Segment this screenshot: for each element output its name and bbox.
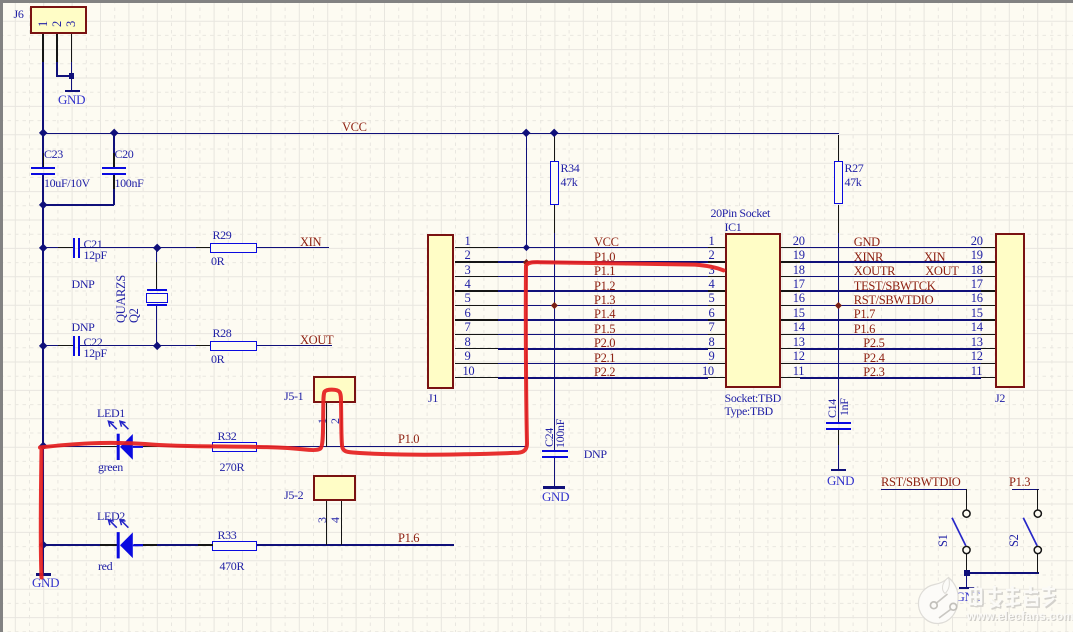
net label P1.1 (594, 265, 615, 278)
IC1 left pin number 5 (709, 292, 715, 305)
resistor R34 (554, 135, 555, 161)
J2 pin number 11 (971, 365, 982, 378)
wire XOUT row left (42, 345, 73, 347)
wire C14 to gnd (838, 430, 839, 446)
wire C24 to gnd (554, 458, 556, 487)
watermark url text (967, 609, 1073, 623)
J5-2 pin 3 (316, 517, 329, 523)
IC1 right pin number 19 (793, 249, 805, 262)
net label P1.2 (594, 280, 615, 293)
node row5 P1.3 pullup (551, 302, 558, 309)
ground symbol C24 (543, 486, 565, 488)
switch S2 (1023, 510, 1041, 554)
IC1 left pin number 8 (709, 336, 715, 349)
watermark chinese text (969, 585, 1056, 608)
wire XIN row right (257, 247, 329, 249)
wire J1 pin10 to IC1 pin10 (455, 377, 498, 378)
node row1 VCC (523, 244, 530, 251)
wire junction to S2 (966, 572, 1039, 574)
crystal Q2 (147, 289, 167, 291)
wire quartz bottom (156, 306, 158, 347)
wire LED1 to R32 (134, 446, 213, 448)
net label XINR (854, 251, 883, 264)
IC1 left pin number 3 (709, 264, 715, 277)
wire IC1 pin14 to J2 pin14 (781, 334, 800, 335)
IC1 right pin number 20 (793, 235, 805, 248)
wire J1 pin2 to IC1 pin2 (455, 261, 498, 262)
resistor R27 (838, 135, 839, 161)
net label P1.3 (594, 294, 615, 307)
net label P2.5 (863, 337, 884, 350)
J1 pin number 8 (465, 336, 471, 349)
J1 pin number 6 (465, 307, 471, 320)
wire R34 bottom down to C24 (554, 205, 555, 233)
wire red highlight trace (40, 262, 724, 577)
wire LED2 to R33 (134, 544, 213, 546)
J5-2 pin 4 (329, 517, 342, 523)
wire quartz top (156, 248, 158, 290)
wire IC1 pin12 to J2 pin12 (781, 363, 800, 364)
IC1 left pin number 10 (702, 365, 714, 378)
J2 pin number 18 (971, 264, 983, 277)
J2 pin number 20 (971, 235, 983, 248)
wire S1 bottom to junction (966, 553, 967, 572)
wire J1 pin6 to IC1 pin6 (455, 319, 498, 320)
wire R27 bottom down to C14 (838, 205, 839, 233)
net label P1.5 (594, 323, 615, 336)
wire XOUT row right (257, 345, 332, 347)
wire R32 to P1.0 elbow (257, 446, 527, 448)
LED LED1 labels (97, 407, 125, 420)
LED LED1 (green) (108, 421, 143, 460)
ground symbol bottom-left (36, 573, 52, 575)
net label P2.1 (594, 352, 615, 365)
J2 pin number 13 (971, 336, 983, 349)
J2 pin number 17 (971, 278, 983, 291)
wire VCC rail (42, 133, 839, 135)
net label P2.3 (863, 366, 884, 379)
wire IC1 pin20 to J2 pin20 (781, 247, 800, 248)
J2 pin number 12 (971, 350, 983, 363)
wire P1.3 to S2 (1012, 489, 1039, 491)
IC1 left pin number 6 (709, 307, 715, 320)
text DNP upper (72, 278, 95, 291)
jumper J5-2 (313, 475, 356, 501)
wire C20 bottom to rail (42, 204, 114, 206)
ground symbol J6 (65, 90, 81, 92)
J1 pin number 2 (465, 249, 471, 262)
net label P1.4 (594, 308, 615, 321)
node rail LED2 row (38, 541, 47, 550)
wire IC1 pin15 to J2 pin15 (781, 319, 800, 320)
IC1 right pin number 16 (793, 292, 805, 305)
net label P1.0 (594, 251, 615, 264)
ground symbol C14 (831, 469, 847, 471)
capacitor C24 (542, 450, 568, 452)
net label P2.4 (863, 352, 884, 365)
wire R33 to P1.6 end (257, 544, 454, 546)
IC1 left pin number 7 (709, 321, 715, 334)
wire J1 pin1 to IC1 pin1 (455, 247, 498, 248)
capacitor C23 (31, 167, 55, 169)
IC1 left pin number 1 (709, 235, 715, 248)
node rail-XOUT (38, 341, 47, 350)
wire IC1 pin16 to J2 pin16 (781, 305, 800, 306)
J6 pin 3 (65, 21, 78, 27)
J1 pin number 5 (465, 292, 471, 305)
wire IC1 pin18 to J2 pin18 (781, 276, 800, 277)
wire XIN row mid (80, 247, 210, 249)
ground symbol switches (966, 576, 968, 587)
J1 pin number 9 (465, 350, 471, 363)
capacitor C21 (73, 238, 75, 259)
node VCC rail x526 (522, 129, 531, 138)
IC1 right pin number 11 (793, 365, 804, 378)
net label P1.6 (bottom) (398, 532, 419, 545)
node C23/C20 bottom (38, 201, 47, 210)
node row2 P1.0 (523, 259, 530, 266)
watermark logo (918, 578, 958, 624)
wire pin3 down to gnd (71, 62, 73, 90)
J6 pin 1 (37, 21, 50, 27)
node junction J6 gnd (69, 73, 75, 79)
wire IC1 pin17 to J2 pin17 (781, 290, 800, 291)
wire XIN row left (42, 247, 73, 249)
IC1 right pin number 12 (793, 350, 805, 363)
wire left rail upper (J6 pin1 down to C23) (42, 62, 44, 168)
LED LED2 (red) (108, 520, 143, 559)
node row16 RST pullup (835, 302, 842, 309)
wire IC1 pin19 to J2 pin19 (781, 261, 800, 262)
wire pin2 down (56, 62, 58, 77)
node rail-XIN (38, 243, 47, 252)
resistor R28 (210, 341, 256, 351)
J1 pin number 1 (465, 235, 471, 248)
net label P1.6 (854, 323, 875, 336)
wire IC1 pin11 to J2 pin11 (781, 377, 800, 378)
resistor R33 (212, 541, 257, 551)
J1 pin number 3 (465, 264, 471, 277)
wire XOUT row mid (80, 345, 210, 347)
net label XOUT (300, 334, 333, 347)
net label XOUT (right) (925, 265, 958, 278)
capacitor C22 (73, 336, 75, 357)
switch S1 label (937, 534, 950, 547)
resistor R29 (210, 243, 256, 253)
capacitor C14 (826, 422, 851, 424)
J6 pin 2 (51, 21, 64, 27)
net label TEST/SBWTCK (854, 280, 936, 293)
J1 pin number 7 (465, 321, 471, 334)
net label RST/SBWTDIO (854, 294, 934, 307)
net label P1.7 (854, 308, 875, 321)
J2 pin number 19 (971, 249, 983, 262)
net label P2.0 (594, 337, 615, 350)
node C20 top (109, 129, 118, 138)
J2 pin number 16 (971, 292, 983, 305)
connector J1 (427, 234, 454, 389)
wire RST to S1 (881, 489, 967, 491)
wire J1 pin4 to IC1 pin4 (455, 290, 498, 291)
IC1 left pin number 2 (709, 249, 715, 262)
IC 20-pin socket IC1 (725, 233, 781, 389)
J5-1 pin 1 (316, 418, 329, 424)
IC1 left pin number 4 (709, 278, 715, 291)
net label GND (854, 236, 880, 249)
wire P1.0 vertical (row2 down to P1.0 elbow) (526, 262, 528, 446)
text DNP lower (72, 321, 95, 334)
node quartz bottom (152, 341, 161, 350)
wire pin2 to pin3 (56, 75, 72, 77)
IC1 right pin number 18 (793, 264, 805, 277)
wire left rail below C23 (42, 175, 44, 575)
J1 pin number 4 (465, 278, 471, 291)
IC1 right pin number 17 (793, 278, 805, 291)
J2 pin number 15 (971, 307, 983, 320)
net label XIN (300, 236, 321, 249)
net label P1.3 (bottom) (1009, 476, 1030, 489)
node switch junction (964, 570, 970, 576)
wire J1 pin3 to IC1 pin3 (455, 276, 498, 277)
J5-1 pin 2 (329, 418, 342, 424)
connector J6 (30, 6, 87, 34)
connector J2 (995, 233, 1025, 389)
wire VCC to row1 vertical (526, 134, 528, 248)
IC1 right pin number 13 (793, 336, 805, 349)
text DNP C24 (584, 448, 607, 461)
IC1 left pin number 9 (709, 350, 715, 363)
net label RST/SBWTDIO (bottom) (881, 476, 961, 489)
switch S1 (952, 510, 970, 554)
node VCC rail R34 (550, 129, 559, 138)
IC1 right pin number 14 (793, 321, 805, 334)
wire J1 pin8 to IC1 pin8 (455, 348, 498, 349)
wire J1 pin9 to IC1 pin9 (455, 363, 498, 364)
net label XOUTR (854, 265, 895, 278)
wire J1 pin7 to IC1 pin7 (455, 334, 498, 335)
net label XIN (right) (924, 251, 945, 264)
net label P1.0 (bottom) (398, 433, 419, 446)
node quartz top (152, 243, 161, 252)
wire LED2 row left (42, 544, 117, 546)
net label VCC (594, 236, 619, 249)
net label VCC (342, 121, 367, 134)
resistor R32 (212, 442, 257, 452)
J2 pin number 14 (971, 321, 983, 334)
wire LED1 row left (42, 446, 117, 448)
IC1 right pin number 15 (793, 307, 805, 320)
switch S2 label (1008, 534, 1021, 547)
J1 pin number 10 (463, 365, 475, 378)
node VCC-left rail (38, 129, 47, 138)
net label P2.2 (594, 366, 615, 379)
capacitor C20 (113, 134, 115, 167)
node rail LED1 row (38, 442, 47, 451)
wire J1 pin5 to IC1 pin5 (455, 305, 498, 306)
LED LED2 labels (97, 510, 125, 523)
wire IC1 pin13 to J2 pin13 (781, 348, 800, 349)
jumper J5-1 (313, 376, 356, 403)
